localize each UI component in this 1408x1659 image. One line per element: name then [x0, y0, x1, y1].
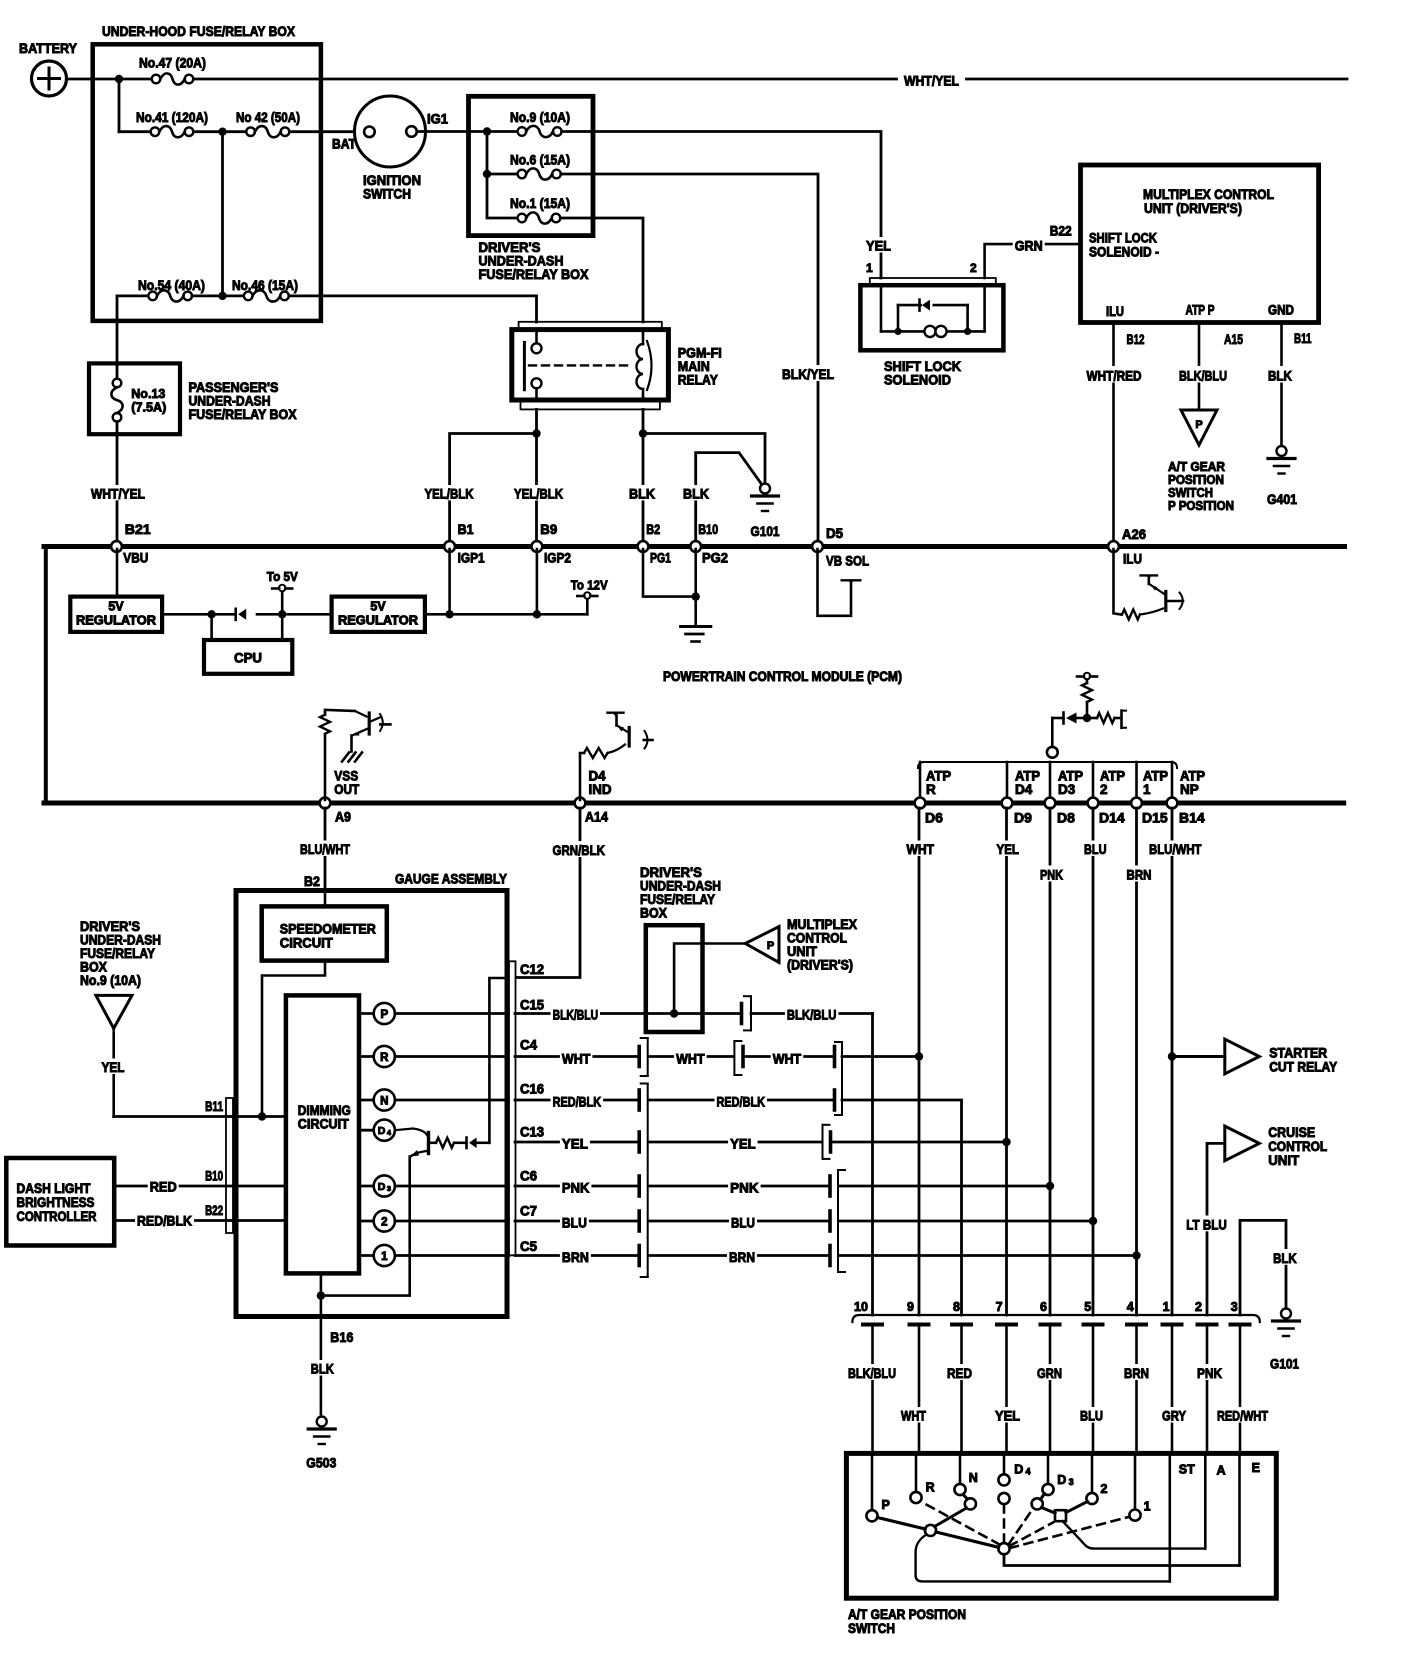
ground (PG) — [681, 625, 711, 628]
wire BRN (pin4) — [1122, 1364, 1151, 1380]
svg-text:6: 6 — [1040, 1300, 1047, 1314]
svg-text:REGULATOR: REGULATOR — [76, 614, 156, 628]
dashed wiper rays — [921, 1502, 1000, 1545]
svg-text:PG1: PG1 — [650, 550, 671, 566]
wire YEL to gauge B11 — [112, 1028, 115, 1116]
fuse No.46 (15A) — [244, 292, 253, 301]
svg-text:CUT RELAY: CUT RELAY — [1269, 1059, 1338, 1075]
wire B2 into speedometer — [324, 891, 327, 907]
svg-text:No.9 (10A): No.9 (10A) — [80, 973, 141, 988]
svg-text:1: 1 — [1144, 1500, 1151, 1514]
wire B9 down — [536, 549, 539, 614]
svg-text:BLK/BLU: BLK/BLU — [1179, 368, 1227, 384]
svg-text:A/T GEAR: A/T GEAR — [1168, 460, 1225, 474]
svg-text:R: R — [926, 1481, 935, 1495]
gauge indicator D4 — [359, 1129, 374, 1132]
ground G101 (right) — [1281, 1309, 1291, 1319]
wire B10 to ground G101 (BLK) — [696, 453, 762, 541]
wire No.6 to PCM D5 (BLK/YEL) — [561, 174, 818, 541]
ATP 1 stub / terminal D15 — [1135, 762, 1138, 800]
svg-text:BLU: BLU — [562, 1214, 587, 1230]
terminal A9 / VSS OUT — [320, 798, 331, 809]
CPU box — [204, 640, 292, 674]
wire regulator2 to IGP rail — [425, 613, 587, 616]
cruise control unit — [1225, 1126, 1260, 1161]
wire No.54 to No.46 — [192, 294, 244, 297]
svg-text:WHT: WHT — [562, 1051, 591, 1067]
svg-text:BRIGHTNESS: BRIGHTNESS — [17, 1195, 95, 1210]
wire BLU (pin5) — [1078, 1407, 1105, 1423]
wire BLK/BLU (pin10) — [846, 1364, 898, 1380]
svg-text:B14: B14 — [1179, 810, 1205, 826]
svg-text:BRN: BRN — [1124, 1365, 1149, 1381]
svg-text:R: R — [380, 1052, 389, 1064]
right connector strip (C pins) — [509, 961, 516, 1255]
fuse No.42 (50A) — [246, 127, 255, 136]
wire BRN (ATP 1) down to pin 4 — [1135, 808, 1138, 1315]
svg-text:1: 1 — [1143, 782, 1151, 797]
wire C15 to connector — [703, 1012, 741, 1015]
svg-text:5V: 5V — [108, 600, 124, 614]
svg-text:3: 3 — [1069, 1477, 1074, 1487]
svg-text:B2: B2 — [646, 521, 660, 537]
svg-text:D: D — [378, 1181, 386, 1193]
solenoid coil circles — [924, 326, 935, 337]
fuse No.41 (120A) — [119, 130, 151, 133]
tall connector bracket (C16..C5) — [647, 1084, 649, 1278]
To 5V symbol — [281, 591, 284, 614]
svg-text:To 5V: To 5V — [267, 569, 298, 584]
svg-text:BATTERY: BATTERY — [19, 40, 78, 56]
solenoid internals — [880, 285, 883, 331]
dimming circuit box — [286, 995, 359, 1273]
wire YEL (pin7) — [993, 1407, 1022, 1423]
terminal B9 / IGP2 — [532, 541, 543, 552]
shift lock solenoid box — [860, 285, 1003, 350]
svg-text:CPU: CPU — [234, 651, 262, 666]
svg-text:C15: C15 — [520, 998, 544, 1013]
PCM left edge wire — [44, 547, 48, 804]
switch contact R — [915, 1453, 918, 1492]
svg-text:POSITION: POSITION — [1168, 473, 1224, 487]
wiper link D3/square/2 — [1041, 1494, 1045, 1500]
svg-text:D8: D8 — [1057, 810, 1075, 826]
wire No.1 to PGM-FI relay coil — [560, 218, 643, 322]
E column — [1238, 1453, 1241, 1565]
wire WHT to junction — [842, 1055, 919, 1058]
svg-text:1: 1 — [381, 1251, 388, 1263]
5V regulator (right) — [332, 597, 425, 632]
solenoid diode — [897, 305, 900, 331]
svg-text:3: 3 — [1231, 1300, 1238, 1314]
ATP D3 stub / terminal D8 — [1049, 762, 1052, 800]
svg-text:BLK/BLU: BLK/BLU — [848, 1365, 896, 1381]
wire C7 row BLU — [515, 1220, 638, 1223]
wire No.46 to PGM-FI relay — [289, 296, 537, 322]
svg-text:N: N — [380, 1096, 388, 1108]
svg-text:B1: B1 — [458, 521, 474, 537]
fuse No.1 (15A) — [518, 214, 527, 223]
fuse No.9 (10A) — [518, 127, 527, 136]
fuse No.54 (40A) — [117, 294, 148, 297]
svg-text:BLK/BLU: BLK/BLU — [787, 1007, 837, 1023]
wire No.47 to WHT/YEL line — [193, 78, 896, 81]
svg-text:RELAY: RELAY — [678, 372, 719, 388]
svg-text:BLU: BLU — [731, 1214, 755, 1230]
svg-text:G101: G101 — [751, 523, 780, 539]
svg-text:BLK/BLU: BLK/BLU — [553, 1007, 599, 1023]
svg-text:G401: G401 — [1267, 491, 1297, 507]
svg-text:D5: D5 — [826, 525, 843, 541]
switch contact 2 — [1091, 1453, 1094, 1493]
svg-text:CIRCUIT: CIRCUIT — [298, 1117, 350, 1132]
ground hash (VSS) — [342, 753, 349, 762]
PCM top bus — [44, 544, 1345, 549]
svg-text:(7.5A): (7.5A) — [131, 400, 166, 415]
svg-text:A14: A14 — [585, 809, 608, 825]
svg-text:8: 8 — [953, 1300, 960, 1314]
svg-text:5V: 5V — [370, 600, 386, 614]
D4 IND transistor circuit — [580, 753, 584, 800]
svg-text:D6: D6 — [925, 810, 943, 826]
wire YEL to junction — [832, 1141, 1007, 1144]
svg-text:LT BLU: LT BLU — [1186, 1216, 1227, 1232]
svg-text:IGP2: IGP2 — [544, 550, 571, 566]
svg-text:GRN: GRN — [1015, 238, 1043, 254]
svg-text:P: P — [1195, 419, 1202, 431]
svg-text:FUSE/RELAY BOX: FUSE/RELAY BOX — [479, 266, 590, 282]
svg-text:SWITCH: SWITCH — [848, 1621, 895, 1636]
ignition switch — [355, 96, 426, 167]
svg-text:G503: G503 — [306, 1455, 336, 1471]
svg-text:YEL: YEL — [995, 1408, 1020, 1424]
wire PNK (ATP D3) down to pin 6 — [1049, 808, 1052, 1315]
terminal B2 / PG1 — [638, 541, 649, 552]
svg-text:GRY: GRY — [1162, 1408, 1187, 1424]
svg-text:GND: GND — [1268, 303, 1294, 318]
node ATP common — [1047, 747, 1058, 758]
svg-text:C16: C16 — [520, 1082, 544, 1097]
wire diode to C12 row — [489, 978, 509, 1143]
svg-text:NP: NP — [1180, 782, 1199, 797]
svg-text:No.1 (15A): No.1 (15A) — [510, 196, 570, 211]
svg-text:N: N — [969, 1471, 978, 1485]
wire A14 to C12 (GRN/BLK) — [515, 808, 580, 978]
svg-text:WHT: WHT — [773, 1051, 802, 1067]
svg-text:2: 2 — [970, 261, 977, 275]
wire inside drivers box — [469, 130, 518, 133]
wire No.54 row down to passenger fuse box — [116, 296, 119, 379]
ground G401 — [1277, 446, 1287, 456]
wire C15 row BLK/BLU — [515, 1012, 646, 1015]
terminal D5 / VB SOL — [812, 541, 823, 552]
wire wiper to ST — [916, 1535, 1170, 1582]
multiplex control unit box (driver's) — [1081, 165, 1319, 323]
wire A9 to gauge B2 (BLU/WHT) — [324, 808, 327, 891]
svg-text:WHT: WHT — [907, 841, 935, 857]
terminal B1 / IGP1 — [444, 541, 455, 552]
svg-text:UNIT (DRIVER'S): UNIT (DRIVER'S) — [1144, 200, 1242, 216]
svg-text:B11: B11 — [205, 1098, 223, 1114]
svg-text:No.6 (15A): No.6 (15A) — [510, 153, 570, 168]
wire WHT (pin9) — [899, 1407, 928, 1423]
wire inside box to multiplex triangle — [646, 1012, 703, 1015]
svg-text:SPEEDOMETER: SPEEDOMETER — [280, 922, 376, 937]
svg-text:CIRCUIT: CIRCUIT — [280, 936, 334, 951]
wire C13 row YEL — [515, 1141, 638, 1144]
svg-text:WHT/YEL: WHT/YEL — [91, 485, 145, 501]
svg-text:WHT: WHT — [901, 1408, 926, 1424]
svg-text:7: 7 — [996, 1300, 1003, 1314]
ground G101 — [760, 484, 770, 494]
svg-text:RED: RED — [947, 1365, 972, 1381]
svg-text:BLU: BLU — [1084, 841, 1107, 857]
svg-text:(DRIVER'S): (DRIVER'S) — [787, 958, 853, 973]
svg-text:No.54 (40A): No.54 (40A) — [138, 278, 205, 293]
svg-text:PNK: PNK — [562, 1179, 590, 1195]
gauge indicator D3 — [359, 1185, 374, 1188]
svg-text:C7: C7 — [520, 1204, 537, 1219]
wire common to E — [1004, 1554, 1240, 1565]
switch contact P — [871, 1453, 874, 1510]
svg-text:C4: C4 — [520, 1038, 537, 1053]
svg-text:G101: G101 — [1270, 1356, 1299, 1372]
A column — [1204, 1453, 1207, 1548]
PCM bottom bus — [44, 801, 1344, 806]
svg-text:DASH LIGHT: DASH LIGHT — [17, 1181, 92, 1196]
svg-text:IG1: IG1 — [427, 112, 448, 127]
svg-text:WHT/YEL: WHT/YEL — [904, 73, 959, 89]
svg-text:B21: B21 — [125, 521, 151, 537]
svg-text:D9: D9 — [1014, 810, 1032, 826]
svg-text:REGULATOR: REGULATOR — [338, 614, 418, 628]
svg-text:WHT/RED: WHT/RED — [1087, 368, 1142, 384]
svg-text:VBU: VBU — [123, 550, 148, 566]
svg-text:PNK: PNK — [730, 1179, 759, 1195]
diode (dimming) — [465, 1138, 468, 1149]
svg-text:P: P — [882, 1498, 890, 1512]
wire BLU (ATP 2) down to pin 5 — [1092, 808, 1095, 1315]
svg-text:BRN: BRN — [729, 1249, 755, 1265]
svg-text:P: P — [767, 940, 774, 952]
battery — [32, 61, 67, 96]
svg-text:D: D — [378, 1125, 386, 1137]
svg-text:B2: B2 — [304, 873, 320, 889]
svg-text:ILU: ILU — [1123, 551, 1142, 567]
svg-text:B9: B9 — [540, 521, 557, 537]
VSS OUT transistor circuit — [324, 735, 327, 800]
wire junction down to No.41 row — [118, 79, 121, 132]
wire ATP P to gear position switch triangle (BLK/BLU) — [1198, 323, 1201, 411]
wire PNK (pin2) — [1195, 1364, 1224, 1380]
svg-text:To 12V: To 12V — [571, 578, 608, 593]
svg-text:BLU/WHT: BLU/WHT — [1149, 841, 1202, 857]
svg-text:A9: A9 — [335, 809, 351, 825]
wire relay coil down to B2 (BLK) and ground G101 — [642, 409, 645, 541]
wire pin 3 to ground G101 (BLK) — [1240, 1220, 1286, 1315]
svg-text:P POSITION: P POSITION — [1168, 499, 1234, 513]
wire BLK/BLU to pin 10 — [751, 1012, 873, 1015]
D4 dimming transistor — [395, 1129, 427, 1136]
terminal A26 / ILU — [1108, 541, 1119, 552]
wire No.41 to No.42 — [193, 130, 246, 133]
under-hood fuse/relay box — [93, 44, 321, 321]
ATP NP stub / terminal B14 — [1171, 762, 1174, 800]
wiper link N — [963, 1495, 968, 1500]
ground G503 — [317, 1417, 327, 1427]
wire square contact to A — [1063, 1521, 1206, 1548]
wire WHT (ATP R) down to pin 9 — [918, 808, 921, 1315]
5V regulator (left) — [70, 597, 162, 632]
switch contact D4 — [1003, 1453, 1006, 1474]
switch contact N — [959, 1453, 962, 1484]
fuse No.13 (7.5A) — [113, 379, 122, 388]
svg-text:10: 10 — [854, 1300, 868, 1314]
wire speedometer to B11 row — [262, 961, 325, 1117]
gauge indicator R — [359, 1055, 374, 1058]
wires junctions to CPU — [210, 614, 213, 640]
wire B1 down — [448, 549, 451, 614]
svg-text:OUT: OUT — [334, 781, 359, 797]
svg-text:C5: C5 — [520, 1239, 537, 1254]
wire GRN (pin6) — [1035, 1364, 1064, 1380]
wire B21 to regulator — [116, 549, 119, 597]
svg-text:YEL: YEL — [730, 1135, 756, 1151]
svg-text:A: A — [1217, 1464, 1226, 1478]
wire C5 row BRN — [515, 1254, 638, 1257]
svg-text:B12: B12 — [1127, 331, 1145, 347]
resistor to T terminator — [1087, 717, 1097, 720]
PGM-FI main relay — [512, 330, 669, 400]
diode (CPU supply) — [234, 609, 237, 620]
driver's under-dash fuse/relay box (gauge feed) — [646, 925, 703, 1032]
svg-text:5: 5 — [1084, 1300, 1091, 1314]
svg-text:YEL/BLK: YEL/BLK — [425, 485, 474, 501]
svg-text:BLU/WHT: BLU/WHT — [300, 841, 350, 857]
wire D5 VB SOL stub — [818, 549, 852, 616]
gauge indicator P — [359, 1012, 374, 1015]
wiper arm P to common — [877, 1518, 925, 1530]
svg-text:P: P — [380, 1009, 388, 1021]
wire RED/BLK to gauge B22 — [114, 1219, 286, 1222]
starter cut relay — [1168, 1052, 1176, 1060]
svg-text:D4: D4 — [1015, 782, 1033, 797]
ATP R stub / terminal D6 — [919, 762, 922, 800]
svg-text:C12: C12 — [520, 962, 544, 977]
svg-text:RED/BLK: RED/BLK — [717, 1093, 766, 1109]
svg-text:B22: B22 — [1050, 223, 1072, 239]
wire RED/WHT (pin3) — [1215, 1407, 1270, 1423]
svg-text:A26: A26 — [1122, 526, 1146, 542]
svg-text:4: 4 — [1127, 1300, 1134, 1314]
svg-text:GRN: GRN — [1037, 1365, 1062, 1381]
svg-text:9: 9 — [907, 1300, 914, 1314]
wire WHT/YEL to B21 — [116, 422, 119, 541]
svg-text:No.46 (15A): No.46 (15A) — [232, 278, 298, 293]
ATP pull-up cluster — [1084, 673, 1091, 680]
svg-text:SOLENOID -: SOLENOID - — [1089, 244, 1159, 260]
svg-text:No.47 (20A): No.47 (20A) — [139, 56, 206, 71]
svg-text:BLK: BLK — [1273, 1250, 1297, 1266]
fuse No.47 (20A) — [152, 75, 161, 84]
svg-text:3: 3 — [387, 1184, 391, 1193]
wire BLU/WHT (ATP NP) down to pin 1 — [1171, 808, 1174, 1315]
svg-text:RED/BLK: RED/BLK — [553, 1093, 602, 1109]
wire C6 row PNK — [515, 1185, 638, 1188]
svg-text:RED/WHT: RED/WHT — [1217, 1408, 1268, 1424]
svg-text:PG2: PG2 — [702, 550, 728, 566]
svg-text:PNK: PNK — [1197, 1365, 1222, 1381]
relay coil — [642, 330, 645, 344]
svg-text:SOLENOID: SOLENOID — [884, 372, 951, 388]
wire junction down to No.54 row — [221, 132, 224, 296]
svg-text:YEL: YEL — [102, 1059, 125, 1075]
svg-text:A15: A15 — [1224, 331, 1243, 347]
gauge assembly box — [236, 891, 507, 1317]
10-pin connector bracket — [852, 1315, 1259, 1322]
svg-text:GAUGE ASSEMBLY: GAUGE ASSEMBLY — [395, 871, 508, 887]
A/T gear position switch box — [846, 1453, 1276, 1598]
wire RED to gauge B10 — [114, 1185, 286, 1188]
svg-text:BLK: BLK — [683, 485, 709, 501]
svg-text:POWERTRAIN CONTROL MODULE (PCM: POWERTRAIN CONTROL MODULE (PCM) — [663, 669, 902, 684]
svg-text:C6: C6 — [520, 1169, 537, 1184]
svg-text:C13: C13 — [520, 1125, 544, 1140]
svg-text:No.9 (10A): No.9 (10A) — [510, 110, 570, 125]
svg-text:IGP1: IGP1 — [458, 550, 485, 566]
terminal B10 / PG2 — [690, 541, 701, 552]
svg-text:2: 2 — [1100, 782, 1108, 797]
wire LT BLU cruise to pin 2 — [1207, 1143, 1225, 1315]
wire IG1 to drivers box — [417, 130, 469, 133]
ATP group bracket — [918, 762, 1177, 768]
svg-text:B10: B10 — [698, 521, 718, 537]
svg-text:SWITCH: SWITCH — [1168, 486, 1213, 500]
speedometer circuit box — [262, 906, 387, 960]
wire RED (pin8) — [945, 1364, 974, 1380]
switch contact 1 — [1134, 1453, 1137, 1509]
svg-text:D: D — [1057, 1473, 1066, 1487]
svg-text:PNK: PNK — [1040, 867, 1063, 883]
svg-text:D15: D15 — [1142, 810, 1168, 826]
svg-text:UNIT: UNIT — [1268, 1152, 1299, 1168]
resistor (dimming) — [430, 1142, 436, 1145]
wire C4 row WHT — [515, 1055, 638, 1058]
wire RED/BLK to pin 8 — [842, 1100, 962, 1315]
passenger under-dash fuse/relay box — [89, 363, 180, 434]
svg-text:4: 4 — [1026, 1467, 1031, 1477]
wire YEL (ATP D4) down to pin 7 — [1005, 808, 1008, 1315]
svg-text:BLK: BLK — [1268, 368, 1292, 384]
wire battery to fuse box (WHT/YEL feed) — [67, 78, 157, 81]
svg-text:1: 1 — [866, 261, 873, 275]
ATP 2 stub / terminal D14 — [1092, 762, 1095, 800]
svg-text:A/T GEAR POSITION: A/T GEAR POSITION — [848, 1607, 966, 1622]
svg-text:D: D — [1014, 1463, 1023, 1477]
svg-text:1: 1 — [1163, 1300, 1170, 1314]
left connector strip (B pins) — [226, 1098, 233, 1233]
svg-text:BLU: BLU — [1080, 1408, 1103, 1424]
multiplex control unit triangle (P) — [745, 927, 779, 963]
shared connector bracket (WHT & RED/BLK) — [841, 1042, 843, 1115]
terminal A14 / D4 IND — [575, 798, 586, 809]
wire C16 row RED/BLK — [515, 1099, 638, 1102]
relay dashed link — [529, 364, 629, 366]
switch contact D3 — [1047, 1453, 1050, 1484]
svg-text:UNDER-HOOD FUSE/RELAY BOX: UNDER-HOOD FUSE/RELAY BOX — [102, 23, 296, 39]
svg-text:WHT: WHT — [676, 1051, 705, 1067]
svg-text:R: R — [926, 782, 936, 797]
